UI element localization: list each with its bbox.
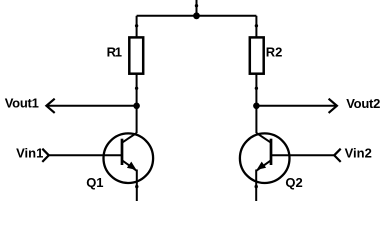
resistor R2 — [250, 37, 264, 73]
junction pin dot below R2 — [255, 87, 258, 90]
wire R1 bottom to Q1 collector — [136, 74, 138, 134]
svg-text:Vin1: Vin1 — [16, 145, 43, 160]
svg-text:Vin2: Vin2 — [345, 145, 372, 160]
node supply junction — [193, 12, 200, 19]
wire Vout2 — [256, 105, 336, 107]
junction pin dot Q2 emitter — [255, 185, 258, 188]
junction pin dot left drop — [135, 24, 138, 27]
wire R2 bottom to Q2 collector — [255, 74, 257, 134]
wire right rail drop to R2 — [255, 16, 257, 38]
arrowhead Vin1 (open, pointing right) — [42, 149, 49, 162]
svg-text:Q1: Q1 — [86, 175, 103, 190]
junction pin dot right drop — [255, 24, 258, 27]
wire Q2 emitter down — [255, 170, 257, 202]
node collector Q1 / Vout1 junction — [133, 103, 140, 110]
arrowhead Vout2 (open, pointing right) — [329, 99, 337, 113]
svg-text:Vout1: Vout1 — [5, 96, 39, 111]
junction pin dot on supply stub — [195, 4, 198, 7]
svg-text:Vout2: Vout2 — [346, 96, 380, 111]
transistor Q2 — [240, 133, 290, 183]
wire supply stub (top center) — [196, 0, 198, 16]
svg-text:Q2: Q2 — [285, 175, 302, 190]
wire Vin1 base lead — [49, 154, 123, 156]
wire left rail drop to R1 — [136, 16, 138, 38]
node collector Q2 / Vout2 junction — [253, 103, 260, 110]
svg-text:R2: R2 — [266, 44, 283, 59]
resistor R1 — [129, 37, 143, 73]
wire Q1 emitter down — [136, 170, 138, 202]
wire top rail — [137, 15, 257, 17]
junction pin dot Q1 emitter — [135, 185, 138, 188]
arrowhead Vin2 (open, pointing left) — [334, 149, 341, 162]
wire Vin2 base lead — [271, 154, 335, 156]
transistor Q1 — [104, 133, 154, 183]
junction pin dot below R1 — [135, 87, 138, 90]
arrowhead Vout1 (open, pointing left) — [46, 99, 54, 113]
wire Vout1 — [47, 105, 137, 107]
svg-text:R1: R1 — [107, 44, 122, 59]
